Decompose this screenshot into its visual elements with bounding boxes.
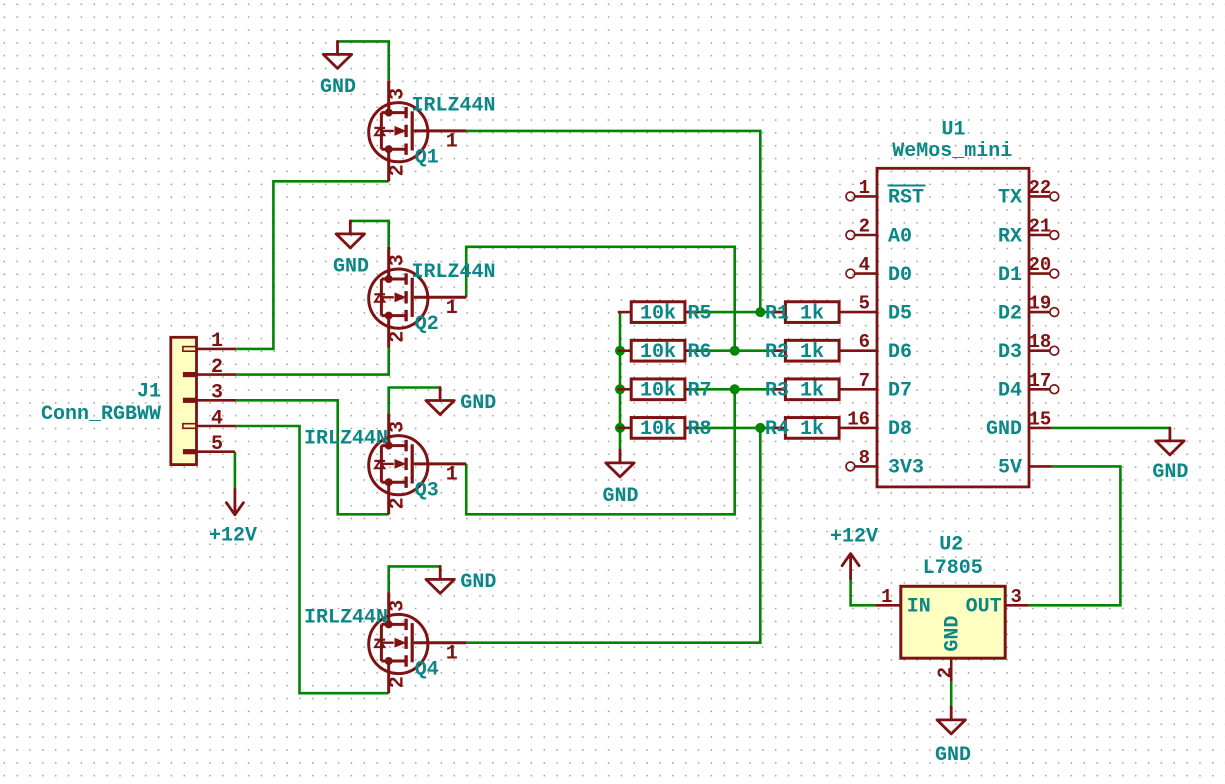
- resistor R6: [618, 340, 712, 364]
- junction 10k rail row4: [615, 423, 625, 433]
- svg-text:22: 22: [1029, 177, 1052, 199]
- pin 7 D7 of U1: [839, 370, 912, 403]
- resistor R5: [618, 302, 712, 326]
- ground gnd6 (U1 GND): [1152, 428, 1188, 484]
- right lead of R6: [685, 349, 698, 352]
- svg-text:16: 16: [847, 408, 870, 430]
- body of R8: [631, 418, 685, 439]
- transistor Q2: [369, 247, 496, 348]
- svg-text:19: 19: [1029, 293, 1052, 315]
- junction node R3: [730, 384, 740, 394]
- svg-text:10k: 10k: [640, 302, 676, 325]
- svg-text:Q4: Q4: [415, 658, 439, 681]
- svg-text:1: 1: [446, 464, 458, 487]
- svg-text:R8: R8: [688, 418, 712, 441]
- junction 10k rail row3: [615, 384, 625, 394]
- body of R3: [785, 379, 839, 400]
- svg-text:Q2: Q2: [415, 313, 439, 336]
- body of R5: [631, 302, 685, 323]
- pin 1 IN of U2: [876, 586, 901, 608]
- ground gnd5 (10k rail): [602, 450, 638, 508]
- resistor R4: [765, 418, 839, 442]
- svg-text:IRLZ44N: IRLZ44N: [304, 428, 388, 451]
- mosfet symbol body of Q4: [369, 592, 467, 693]
- resistor R1: [765, 302, 839, 326]
- svg-text:10k: 10k: [640, 380, 676, 403]
- wire J1 pin3 to Q3 source: [236, 400, 389, 514]
- wire Q4 drain to gnd4: [389, 566, 441, 592]
- junction 10k rail row2: [615, 346, 625, 356]
- svg-text:15: 15: [1029, 408, 1052, 430]
- ground gnd7 (U2 GND): [935, 707, 971, 767]
- left lead of R1: [772, 311, 785, 314]
- left lead of R4: [772, 427, 785, 430]
- svg-text:U2: U2: [939, 534, 963, 557]
- svg-text:TX: TX: [998, 187, 1022, 210]
- svg-text:GND: GND: [1152, 461, 1188, 484]
- body of R2: [785, 340, 839, 361]
- pin 5V of U1: [998, 457, 1052, 480]
- power +12V at J1 pin5: [209, 490, 257, 548]
- svg-text:1k: 1k: [800, 418, 824, 441]
- svg-text:Q3: Q3: [415, 480, 439, 503]
- svg-text:18: 18: [1029, 331, 1052, 353]
- wire U2 GND pin to gnd7: [950, 682, 953, 707]
- mosfet symbol body of Q1: [369, 80, 467, 181]
- wire J1 pin5 to +12V: [234, 452, 237, 490]
- wire U2 IN to +12V: [851, 579, 876, 605]
- svg-text:D3: D3: [998, 341, 1022, 364]
- svg-text:RX: RX: [998, 225, 1022, 248]
- svg-text:R2: R2: [765, 341, 789, 364]
- svg-text:1: 1: [211, 330, 223, 353]
- pin 20 D1 of U1: [998, 254, 1059, 287]
- svg-text:D4: D4: [998, 380, 1022, 403]
- body of R6: [631, 340, 685, 361]
- svg-text:1: 1: [881, 586, 892, 608]
- resistor R3: [765, 379, 839, 403]
- svg-text:GND: GND: [942, 616, 965, 652]
- junction node R1: [755, 307, 765, 317]
- svg-text:A0: A0: [888, 225, 912, 248]
- wire row2 R6 to R2: [685, 349, 786, 352]
- svg-text:U1: U1: [941, 119, 965, 142]
- svg-text:D8: D8: [888, 418, 912, 441]
- pin 1 RST of U1: [846, 177, 926, 210]
- svg-text:IRLZ44N: IRLZ44N: [412, 261, 496, 284]
- wire Q2 source to J1 pin2: [236, 348, 389, 375]
- svg-text:5: 5: [859, 293, 870, 315]
- wire Q4 gate to node R4: [466, 428, 760, 643]
- wire gnd2 to Q2 drain: [350, 221, 388, 247]
- ground gnd2: [333, 221, 369, 279]
- left lead of R8: [618, 427, 631, 430]
- svg-text:L7805: L7805: [923, 557, 983, 580]
- svg-text:4: 4: [859, 254, 870, 276]
- pin 17 D4 of U1: [998, 370, 1059, 403]
- svg-text:GND: GND: [320, 76, 356, 99]
- right lead of R7: [685, 388, 698, 391]
- svg-text:OUT: OUT: [966, 596, 1002, 619]
- svg-text:GND: GND: [986, 418, 1022, 441]
- svg-text:Conn_RGBWW: Conn_RGBWW: [41, 403, 161, 426]
- body of R4: [785, 418, 839, 439]
- svg-text:D5: D5: [888, 302, 912, 325]
- wire gnd1 to Q1 drain: [338, 41, 389, 80]
- transistor Q4: [304, 592, 466, 693]
- svg-text:1: 1: [446, 642, 458, 665]
- left lead of R3: [772, 388, 785, 391]
- svg-text:3: 3: [1011, 586, 1022, 608]
- svg-text:GND: GND: [602, 485, 638, 508]
- pin 22 TX of U1: [998, 177, 1059, 210]
- svg-text:5V: 5V: [998, 457, 1022, 480]
- svg-text:3: 3: [387, 88, 410, 100]
- svg-text:GND: GND: [935, 744, 971, 767]
- wire Q3 gate to node R3: [466, 389, 735, 514]
- ground gnd1: [320, 41, 356, 99]
- pin 16 D8 of U1: [839, 408, 912, 441]
- svg-text:D6: D6: [888, 341, 912, 364]
- resistor R2: [765, 340, 839, 364]
- svg-text:2: 2: [935, 667, 957, 678]
- left lead of R7: [618, 388, 631, 391]
- svg-text:1k: 1k: [800, 341, 824, 364]
- svg-text:21: 21: [1029, 216, 1052, 238]
- wire U1 GND pin15 to gnd6: [1052, 427, 1170, 430]
- transistor Q3: [304, 413, 466, 514]
- right lead of R5: [685, 311, 698, 314]
- svg-text:3: 3: [387, 600, 410, 612]
- svg-text:RST: RST: [888, 187, 924, 210]
- junction node R4: [755, 423, 765, 433]
- pin 2 GND of U2: [935, 658, 957, 681]
- mosfet symbol body of Q3: [369, 413, 467, 514]
- svg-text:17: 17: [1029, 370, 1052, 392]
- svg-text:Q1: Q1: [415, 147, 439, 170]
- svg-text:IN: IN: [907, 596, 931, 619]
- svg-text:7: 7: [859, 370, 870, 392]
- svg-text:3: 3: [211, 382, 223, 405]
- op-amp U1 body: [877, 119, 1029, 487]
- mosfet symbol body of Q2: [369, 247, 467, 348]
- svg-text:R5: R5: [688, 302, 712, 325]
- svg-text:4: 4: [211, 407, 223, 430]
- wire row3 R7 to R3: [685, 388, 786, 391]
- svg-text:R6: R6: [688, 341, 712, 364]
- connector J1: [171, 337, 236, 464]
- power +12V at U2 IN: [830, 526, 878, 579]
- svg-text:R1: R1: [765, 302, 789, 325]
- wire row1 R5 to R1: [685, 311, 786, 314]
- svg-text:1: 1: [446, 131, 458, 154]
- left lead of R5: [618, 311, 631, 314]
- svg-text:R7: R7: [688, 380, 712, 403]
- left lead of R2: [772, 349, 785, 352]
- junction node R2: [730, 346, 740, 356]
- ground gnd3: [426, 388, 496, 416]
- svg-text:20: 20: [1029, 254, 1052, 276]
- left lead of R6: [618, 349, 631, 352]
- svg-text:1k: 1k: [800, 380, 824, 403]
- svg-text:2: 2: [387, 164, 410, 176]
- svg-text:IRLZ44N: IRLZ44N: [412, 95, 496, 118]
- wire row4 R8 to R4: [685, 427, 786, 430]
- transistor Q1: [369, 80, 496, 181]
- svg-text:J1: J1: [137, 381, 161, 404]
- svg-text:8: 8: [859, 447, 870, 469]
- svg-text:2: 2: [387, 331, 410, 343]
- pin 18 D3 of U1: [998, 331, 1059, 364]
- svg-text:IRLZ44N: IRLZ44N: [304, 606, 388, 629]
- svg-text:10k: 10k: [640, 418, 676, 441]
- wire J1 pin4 to Q4 source: [236, 426, 389, 693]
- svg-text:GND: GND: [460, 392, 496, 415]
- svg-text:+12V: +12V: [830, 526, 878, 549]
- pin 5 D5 of U1: [839, 293, 912, 326]
- svg-text:2: 2: [859, 216, 870, 238]
- svg-text:R4: R4: [765, 418, 789, 441]
- body of R7: [631, 379, 685, 400]
- svg-text:3: 3: [387, 254, 410, 266]
- svg-text:3: 3: [387, 421, 410, 433]
- svg-text:2: 2: [387, 676, 410, 688]
- svg-text:GND: GND: [333, 256, 369, 279]
- svg-text:D0: D0: [888, 264, 912, 287]
- svg-text:1: 1: [859, 177, 870, 199]
- regulator U2: [901, 534, 1005, 659]
- wire Q1 source to J1 pin1: [236, 181, 389, 349]
- svg-text:5: 5: [211, 433, 223, 456]
- svg-text:2: 2: [387, 497, 410, 509]
- svg-text:D2: D2: [998, 302, 1022, 325]
- wire Q2 gate to node R2: [466, 247, 735, 351]
- resistor R7: [618, 379, 712, 403]
- wire Q1 gate to node R1: [466, 131, 760, 312]
- resistor R8: [618, 418, 712, 442]
- svg-text:3V3: 3V3: [888, 457, 924, 480]
- ground gnd4: [426, 566, 496, 594]
- pin 3 OUT of U2: [1005, 586, 1029, 608]
- wire U1 5V to U2 OUT: [1029, 466, 1121, 605]
- svg-text:+12V: +12V: [209, 525, 257, 548]
- svg-text:1: 1: [446, 297, 458, 320]
- svg-text:2: 2: [211, 356, 223, 379]
- svg-text:1k: 1k: [800, 302, 824, 325]
- svg-text:WeMos_mini: WeMos_mini: [892, 140, 1012, 163]
- svg-text:R3: R3: [765, 380, 789, 403]
- pin 15 GND of U1: [986, 408, 1052, 441]
- svg-text:6: 6: [859, 331, 870, 353]
- pin 2 A0 of U1: [846, 216, 912, 249]
- pin 4 D0 of U1: [846, 254, 912, 287]
- wire Q3 drain to gnd3: [389, 388, 440, 414]
- pin 8 3V3 of U1: [846, 447, 924, 480]
- body of R1: [785, 302, 839, 323]
- svg-text:D1: D1: [998, 264, 1022, 287]
- pin 6 D6 of U1: [839, 331, 912, 364]
- svg-text:GND: GND: [460, 571, 496, 594]
- pin 19 D2 of U1: [998, 293, 1059, 326]
- svg-text:10k: 10k: [640, 341, 676, 364]
- pin 21 RX of U1: [998, 216, 1059, 249]
- right lead of R8: [685, 427, 698, 430]
- wire 10k gnd rail: [619, 312, 622, 450]
- svg-text:D7: D7: [888, 380, 912, 403]
